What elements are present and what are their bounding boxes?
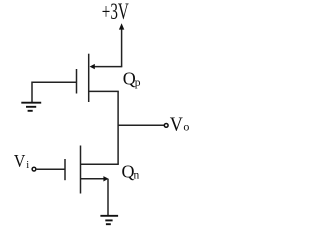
label Qn — [122, 161, 140, 181]
ground (at Qn source) — [100, 216, 118, 224]
svg-text:o: o — [183, 120, 189, 134]
wire output node to Vo terminal — [118, 124, 164, 126]
ground (at Qp gate) — [21, 103, 41, 111]
svg-text:n: n — [134, 169, 140, 181]
transistor Qn (NMOS): gate bar, channel, drain lead, source lead with right arrow — [65, 146, 119, 194]
terminal Vi (open circle) — [32, 167, 36, 171]
wire Qn source to bottom ground — [107, 179, 109, 215]
wire output rail: Qp drain to Qn drain — [117, 91, 119, 164]
svg-text:+3V: +3V — [102, 0, 129, 24]
wire Vi to Qn gate — [37, 168, 65, 170]
svg-text:V: V — [14, 151, 26, 171]
svg-text:p: p — [135, 77, 141, 89]
label Vo — [170, 114, 190, 136]
wire VDD supply rail with up arrowhead — [119, 23, 124, 66]
label Vi — [14, 151, 29, 171]
terminal Vo (open circle) — [164, 124, 168, 128]
svg-text:i: i — [26, 160, 29, 171]
wire Qp gate to left ground — [32, 82, 77, 102]
transistor Qp (PMOS): gate bar, channel, source lead with left arrow, drain lead — [77, 54, 123, 102]
svg-text:V: V — [170, 114, 183, 136]
label Qp — [123, 69, 141, 89]
